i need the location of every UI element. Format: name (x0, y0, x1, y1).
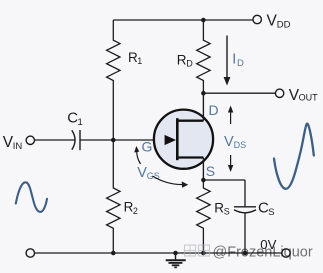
capacitor C1 (72, 130, 75, 150)
node source junction (201, 178, 206, 183)
arrow VGS to S (153, 176, 183, 185)
resistor RS (197, 180, 210, 253)
svg-text:DD: DD (277, 20, 291, 31)
wire VOUT (203, 92, 275, 94)
svg-text:D: D (209, 102, 219, 118)
svg-text:S: S (206, 163, 215, 179)
wire top rail (113, 19, 253, 21)
resistor R2 (107, 140, 120, 253)
svg-text:S: S (224, 207, 230, 217)
transistor Q1 body (154, 110, 213, 169)
svg-text:2: 2 (133, 206, 138, 216)
watermark (185, 244, 313, 260)
svg-text:D: D (186, 59, 193, 69)
svg-text:D: D (237, 58, 244, 69)
svg-text:OUT: OUT (299, 93, 319, 103)
wire bottom rail (35, 252, 282, 254)
input sine wave (16, 182, 47, 212)
ground (166, 253, 186, 267)
svg-text:S: S (268, 207, 274, 218)
arrow VDS lower (230, 155, 232, 167)
arrow VDS upper (230, 111, 232, 124)
node drain junction (201, 91, 206, 96)
transistor Q1 gate arrowhead (165, 135, 176, 145)
node top junction (201, 18, 206, 23)
svg-text:V: V (137, 165, 147, 181)
node R2 bottom (111, 251, 116, 256)
terminal bottom left (26, 249, 34, 257)
wire VIN to C1 (35, 139, 75, 141)
transistor Q1 source bar (176, 156, 203, 158)
terminal 0V (282, 249, 290, 257)
svg-text:I: I (232, 52, 236, 68)
transistor Q1 drain bar (176, 120, 203, 122)
svg-text:V: V (224, 134, 234, 150)
svg-text:DS: DS (234, 140, 247, 150)
svg-text:1: 1 (137, 56, 142, 66)
svg-text:IN: IN (13, 141, 23, 152)
node RS bottom (201, 251, 206, 256)
svg-text:@FrozenLiquor: @FrozenLiquor (213, 244, 313, 260)
resistor RD (197, 20, 210, 93)
resistor R1 (107, 20, 120, 140)
wire S to CS (203, 179, 245, 181)
drain lead (202, 93, 204, 121)
capacitor CS lead lower (244, 213, 246, 253)
terminal VIN (26, 136, 34, 144)
source lead (202, 158, 204, 181)
terminal VDD (253, 15, 261, 23)
terminal VOUT (275, 89, 283, 97)
wire C1 to gate (80, 139, 165, 141)
current arrow ID (226, 36, 228, 79)
node gate junction (111, 138, 116, 143)
svg-text:G: G (142, 139, 153, 155)
arrow VGS up (137, 150, 141, 164)
capacitor CS lead upper (244, 180, 246, 207)
output sine wave (274, 124, 314, 189)
transistor Q1 channel bar (176, 118, 179, 160)
node CS bottom (243, 251, 248, 256)
node ground junction (173, 251, 178, 256)
svg-text:1: 1 (78, 117, 83, 128)
capacitor CS (234, 206, 256, 208)
